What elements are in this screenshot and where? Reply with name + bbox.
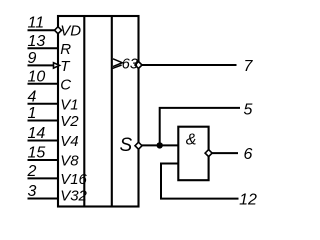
svg-text:14: 14: [28, 125, 46, 142]
svg-text:S: S: [120, 135, 133, 156]
svg-text:12: 12: [239, 192, 257, 209]
svg-text:C: C: [60, 76, 71, 93]
svg-text:63: 63: [122, 56, 138, 72]
svg-text:V32: V32: [60, 187, 87, 204]
svg-text:R: R: [60, 41, 71, 58]
svg-text:15: 15: [28, 145, 46, 162]
svg-text:1: 1: [28, 105, 37, 122]
svg-text:V8: V8: [60, 153, 79, 170]
svg-text:11: 11: [28, 15, 45, 32]
svg-text:4: 4: [28, 88, 37, 105]
svg-text:V1: V1: [60, 96, 78, 113]
svg-text:2: 2: [27, 163, 37, 180]
svg-text:V16: V16: [60, 171, 87, 188]
svg-text:13: 13: [28, 33, 46, 50]
svg-text:9: 9: [28, 50, 37, 67]
svg-text:VD: VD: [60, 23, 81, 40]
svg-text:3: 3: [28, 183, 37, 200]
svg-text:V4: V4: [60, 133, 78, 150]
svg-text:7: 7: [244, 58, 254, 75]
svg-text:5: 5: [244, 101, 253, 118]
svg-text:6: 6: [244, 146, 253, 163]
svg-text:V2: V2: [60, 113, 79, 130]
svg-text:&: &: [186, 132, 197, 149]
svg-text:10: 10: [28, 68, 46, 85]
